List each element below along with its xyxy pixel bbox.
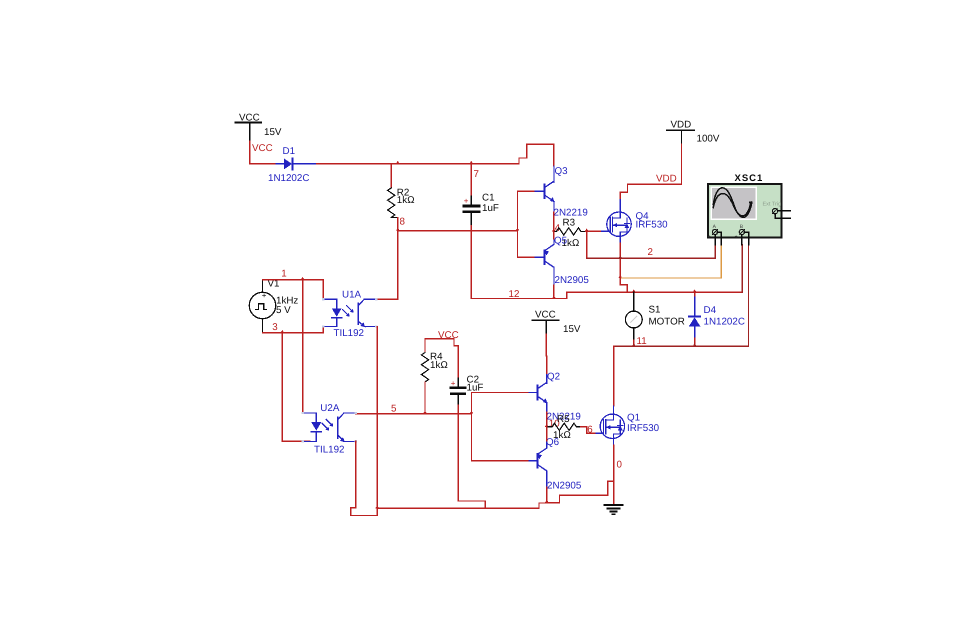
- junction R3/node2 branch: [585, 229, 589, 232]
- optocoupler U1A (TIL192): [322, 290, 377, 340]
- wire node11 down to Q1 drain: [613, 346, 615, 406]
- wire D1 cathode to Q3 collector jog (node 7 rail): [317, 144, 554, 166]
- svg-text:100V: 100V: [697, 134, 720, 145]
- wire VCC to Q2 collector: [545, 334, 547, 356]
- square wave source V1: [249, 279, 298, 333]
- svg-text:U2A: U2A: [320, 403, 340, 414]
- wire Q5 emitter to node4: [553, 231, 555, 239]
- scope waveform trace B: [713, 194, 750, 216]
- wire VCC net R4 top to C2 top: [425, 339, 458, 378]
- svg-text:+: +: [451, 379, 456, 388]
- motor S1: [625, 292, 684, 346]
- svg-text:5: 5: [391, 404, 397, 415]
- power symbol VCC (middle): [533, 310, 581, 336]
- svg-text:2: 2: [648, 247, 653, 258]
- svg-text:R5: R5: [557, 414, 570, 425]
- ext trig terminal: [772, 209, 777, 214]
- wire Q5 collector to node12 rail: [553, 285, 555, 299]
- svg-text:1kΩ: 1kΩ: [430, 360, 448, 371]
- oscilloscope XSC1: [708, 173, 790, 245]
- ext trig stub wires: [778, 210, 790, 212]
- wire Q6 collector down: [546, 487, 548, 502]
- wire R4 bottom to node5 rail: [424, 382, 426, 414]
- wire node 2 branch down: [586, 231, 588, 258]
- junction D4 top: [693, 289, 697, 292]
- MOSFET Q4 (IRF530): [602, 200, 632, 244]
- wire R5 to Q1 gate (node 6): [581, 427, 595, 434]
- ground rail jogs to ground symbol: [539, 503, 547, 508]
- junction node2 at Q4 source: [618, 256, 622, 259]
- wire node8 down to U1A collector: [376, 231, 398, 300]
- wire Q1 source to ground: [613, 445, 615, 504]
- svg-text:1N1202C: 1N1202C: [268, 173, 309, 184]
- svg-text:1kΩ: 1kΩ: [397, 195, 415, 206]
- motor top rail: [567, 292, 628, 298]
- svg-text:MOTOR: MOTOR: [649, 317, 685, 328]
- svg-text:VDD: VDD: [656, 174, 677, 185]
- wire Q6 emitter to node 10: [546, 427, 548, 441]
- svg-text:1N1202C: 1N1202C: [704, 317, 745, 328]
- wire node1 down to U2A anode: [303, 280, 310, 413]
- svg-text:Ext Trig: Ext Trig: [763, 202, 782, 208]
- node 5 rail: [356, 413, 472, 415]
- wire Q2 emitter to node 10: [546, 412, 548, 427]
- orange wire to scope A minus: [620, 245, 721, 279]
- transistor Q3 (2N2219): [535, 166, 555, 212]
- svg-text:1uF: 1uF: [482, 203, 499, 214]
- svg-text:Q2: Q2: [547, 372, 560, 383]
- node 11 rail: [614, 245, 749, 347]
- svg-text:11: 11: [637, 336, 647, 347]
- node 1 rail: [263, 280, 331, 299]
- wire node3 down to U2A cathode: [282, 333, 309, 442]
- svg-text:Q3: Q3: [555, 166, 569, 177]
- resistor R2: [388, 164, 415, 231]
- svg-text:VCC: VCC: [252, 143, 273, 154]
- svg-text:3: 3: [272, 322, 278, 333]
- junction R4 at node5: [423, 411, 427, 414]
- svg-text:C1: C1: [482, 193, 495, 204]
- wire Q4 source down: [619, 243, 621, 278]
- junction orange at Q4 source: [618, 275, 622, 278]
- junction node8 at R2 drop: [396, 228, 400, 231]
- wire Q3 emitter to node 4: [553, 212, 555, 231]
- svg-text:+: +: [708, 234, 711, 240]
- wire C2 bottom to ground rail (crosses node5): [458, 405, 485, 508]
- ground symbol: [605, 505, 623, 514]
- svg-text:12: 12: [509, 289, 520, 300]
- resistor R3: [554, 218, 586, 250]
- svg-text:2N2905: 2N2905: [547, 481, 582, 492]
- svg-text:6: 6: [587, 425, 593, 436]
- scope lead stubs (black): [714, 235, 716, 245]
- node 2 wire (to scope A): [587, 245, 716, 259]
- svg-text:+: +: [735, 234, 738, 240]
- wire VCC symbol to D1 anode: [250, 141, 277, 164]
- svg-text:S1: S1: [649, 305, 661, 316]
- node 3 rail: [263, 327, 331, 333]
- junction Q6 collector at ground rail: [545, 500, 549, 503]
- wire VDD to Q4 drain: [620, 144, 681, 199]
- svg-text:XSC1: XSC1: [735, 173, 764, 184]
- svg-text:7: 7: [474, 169, 479, 180]
- svg-text:2N2905: 2N2905: [555, 275, 590, 286]
- transistor Q6 (2N2905): [528, 441, 547, 487]
- wire R3 to Q4 gate: [586, 230, 602, 232]
- junction Q5 collector at node12 rail: [552, 296, 556, 299]
- wire U2A emitter down with jog: [351, 441, 377, 515]
- power symbol VDD: [667, 120, 720, 145]
- power symbol VCC (top left): [235, 112, 282, 141]
- svg-text:1: 1: [281, 269, 286, 280]
- svg-text:U1A: U1A: [342, 290, 362, 301]
- diode D4 (flyback): [689, 292, 745, 346]
- svg-text:IRF530: IRF530: [636, 220, 669, 231]
- svg-text:8: 8: [400, 217, 406, 228]
- wires Q3/Q5 base vertical: [517, 191, 519, 257]
- MOSFET Q1 (IRF530): [595, 406, 625, 445]
- junction node3: [280, 330, 284, 333]
- junction motor bottom: [632, 343, 636, 346]
- capacitor C2: [451, 375, 484, 406]
- junction bases vertical at node5: [470, 411, 474, 414]
- svg-text:D1: D1: [283, 146, 296, 157]
- optocoupler U2A (TIL192): [302, 403, 357, 456]
- svg-text:VDD: VDD: [671, 120, 692, 131]
- svg-text:R3: R3: [563, 218, 576, 229]
- wires Q2/Q6 base vertical: [471, 393, 473, 461]
- diode D1: [268, 146, 317, 184]
- junction bottom rail at U1A emitter: [375, 505, 379, 508]
- resistor R5: [547, 414, 581, 441]
- transistor Q5 (2N2905): [535, 239, 554, 285]
- svg-text:15V: 15V: [563, 324, 581, 335]
- svg-text:5 V: 5 V: [276, 305, 291, 316]
- junction near R2 top: [396, 161, 400, 164]
- resistor R4: [421, 352, 447, 383]
- wire C1 bottom down to node 12 rail (crosses node8 rail): [471, 226, 566, 299]
- svg-text:Q1: Q1: [627, 413, 640, 424]
- svg-text:VCC: VCC: [535, 310, 556, 321]
- node 8 rail: [398, 230, 518, 232]
- junction D4 bottom: [693, 343, 697, 346]
- junction node8 at bases vertical: [516, 228, 520, 231]
- svg-text:TIL192: TIL192: [314, 445, 345, 456]
- svg-text:IRF530: IRF530: [627, 423, 660, 434]
- svg-text:D4: D4: [704, 305, 717, 316]
- svg-text:Q5: Q5: [554, 236, 568, 247]
- junction C1 top (node 7): [469, 161, 473, 164]
- svg-text:15V: 15V: [264, 127, 282, 138]
- wire Q4 source jog to motor rail: [620, 278, 627, 292]
- junction node 10: [545, 424, 549, 427]
- junction motor top: [632, 289, 636, 292]
- svg-text:Q6: Q6: [546, 437, 560, 448]
- junction node1: [301, 277, 305, 280]
- svg-text:0: 0: [617, 460, 623, 471]
- transistor Q2 (2N2219): [528, 375, 548, 412]
- svg-text:+: +: [464, 197, 469, 206]
- scope waveform trace A: [713, 188, 752, 218]
- ground-net bottom rail: [377, 507, 539, 509]
- wire U1A collector riser handled above; wire U1A emitter down: [376, 327, 378, 509]
- capacitor C1: [464, 164, 499, 226]
- svg-text:TIL192: TIL192: [334, 328, 365, 339]
- junction node 4: [552, 229, 556, 232]
